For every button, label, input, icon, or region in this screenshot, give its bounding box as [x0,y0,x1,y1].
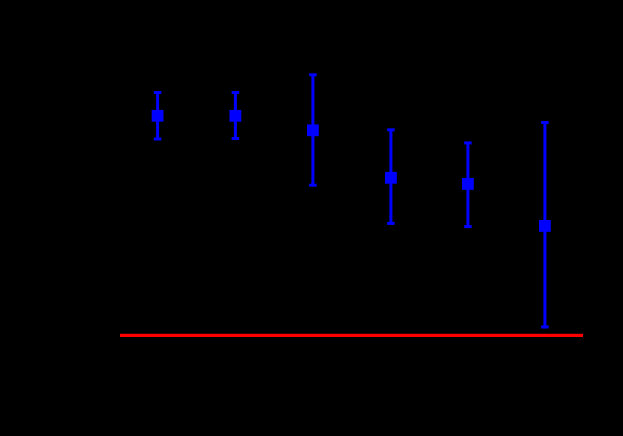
error bar point 1 [152,91,164,141]
error bar point 5 [462,141,474,228]
error bar point 6 [539,121,551,329]
error bar point 2 [230,91,242,140]
error bar point 4 [385,128,397,225]
reference line (red) [120,334,583,337]
error bar point 3 [307,73,319,186]
